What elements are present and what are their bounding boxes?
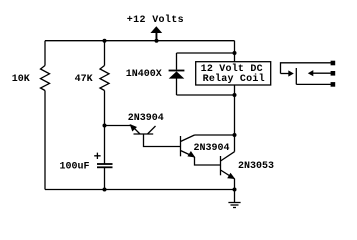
transistor Q2 emitter arrowhead <box>187 151 195 158</box>
diode 1N400X symbol <box>169 70 185 79</box>
wire Q2 collector to right rail <box>195 134 235 136</box>
wire left rail (down to 10K) <box>44 41 46 66</box>
relay contact arrowhead right <box>288 70 294 76</box>
wire top rail +12V <box>45 40 235 42</box>
junction node diode top <box>233 51 237 55</box>
diode 1N400X body wires <box>176 53 178 95</box>
svg-text:Relay Coil: Relay Coil <box>203 73 265 85</box>
capacitor C1 100uF plates <box>97 163 113 165</box>
relay contact terminal middle <box>331 71 336 76</box>
wire 47K bottom to capacitor top plate <box>104 91 106 164</box>
wire diode branch bottom <box>177 94 235 96</box>
transistor Q1 2N3904 (rotated) <box>132 126 181 147</box>
wire bottom rail <box>45 189 235 191</box>
relay contact arrowhead left <box>308 70 314 76</box>
wire 47K branch top <box>104 41 106 66</box>
transistor Q3 emitter arrowhead <box>227 173 235 179</box>
capacitor polarity plus sign <box>94 153 100 159</box>
junction node 47K top rail <box>103 39 107 43</box>
svg-text:100uF: 100uF <box>60 162 90 173</box>
svg-text:1N400X: 1N400X <box>126 69 162 80</box>
junction node ground <box>233 188 237 192</box>
resistor 10K <box>41 66 50 91</box>
relay coil box <box>196 62 271 85</box>
resistor 47K <box>100 66 109 91</box>
svg-text:2N3904: 2N3904 <box>128 113 164 124</box>
power +12V arrow <box>150 26 162 41</box>
wire right rail through relay box to Q3 collector <box>234 85 236 152</box>
transistor Q3 2N3053 <box>221 152 235 190</box>
svg-text:+12 Volts: +12 Volts <box>127 14 184 26</box>
relay contacts SPDT <box>281 63 334 85</box>
junction node Q2 collector <box>233 133 237 137</box>
svg-text:2N3904: 2N3904 <box>194 143 230 154</box>
svg-text:2N3053: 2N3053 <box>238 161 274 172</box>
junction node cap bottom rail <box>103 188 107 192</box>
wire diode branch top <box>177 52 235 54</box>
junction node diode bottom <box>233 93 237 97</box>
transistor Q1 emitter arrowhead <box>130 124 137 132</box>
wire capacitor bottom to bottom rail <box>104 168 106 190</box>
transistor Q2 2N3904 <box>181 135 221 165</box>
ground symbol <box>228 190 240 208</box>
svg-text:47K: 47K <box>75 74 93 85</box>
wire right rail top (corner to relay box) <box>234 41 236 62</box>
svg-text:10K: 10K <box>12 74 30 85</box>
relay contact terminal top <box>331 61 336 66</box>
wire left rail (10K to bottom rail) <box>44 91 46 190</box>
relay contact terminal bottom <box>331 82 336 87</box>
junction node +12V arrow <box>155 39 159 43</box>
wire node A to Q1 emitter <box>105 125 132 127</box>
junction node A (47K/cap/Q1) <box>103 124 107 128</box>
